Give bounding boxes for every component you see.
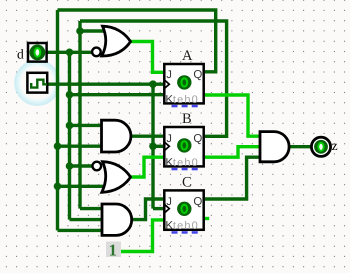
wire A Q to AND1 input2	[58, 144, 103, 147]
wire d to OR2 bubble	[70, 164, 94, 167]
junction BQ/OR1	[76, 27, 84, 35]
wire A Q to OR2 input2	[58, 185, 108, 188]
junction clock/A	[149, 80, 157, 88]
wire A Q vertical bus	[56, 10, 59, 230]
svg-text:A: A	[182, 48, 193, 64]
wire B Q to OR1 input1	[80, 29, 105, 32]
svg-text:teh0: teh0	[173, 94, 199, 106]
and-gate AND3	[260, 132, 289, 162]
wire clock to A clk	[48, 82, 164, 85]
junction d/A-K	[66, 91, 74, 99]
wire AND2 output to C J	[132, 199, 164, 220]
input pin d	[28, 43, 47, 62]
svg-text:teh0: teh0	[173, 157, 199, 169]
flip-flop A	[164, 64, 203, 107]
wire clock to B clk	[153, 145, 163, 148]
svg-text:C: C	[182, 175, 192, 191]
svg-text:J: J	[166, 133, 172, 145]
wire d output	[48, 51, 96, 54]
svg-text:Q: Q	[193, 69, 202, 81]
svg-text:teh0: teh0	[173, 220, 199, 232]
junction d wire	[66, 49, 74, 57]
junction clock/B	[149, 143, 157, 151]
wire d to AND1 input1	[70, 124, 103, 127]
constant 1	[106, 240, 121, 259]
svg-text:z: z	[332, 138, 338, 153]
junction d/OR2	[66, 162, 74, 170]
wire AND1 output to B J	[131, 134, 164, 137]
svg-text:J: J	[166, 196, 172, 208]
junction d/AND1	[66, 122, 74, 130]
svg-text:Q: Q	[193, 196, 202, 208]
output pin z	[311, 137, 330, 156]
svg-text:d: d	[17, 47, 24, 62]
wire AND3 output to z	[289, 145, 312, 148]
wire A Qbar to AND3 input1	[205, 95, 261, 136]
wire d vertical bus	[68, 52, 71, 219]
wire OR2 output to B K	[130, 157, 163, 177]
wire A Q to AND2 input3	[58, 229, 103, 232]
flip-flop C	[164, 190, 203, 233]
and-gate AND2	[102, 204, 132, 235]
wire constant 1 to C K	[120, 220, 164, 252]
wire B Qbar to AND3 input2	[205, 147, 261, 158]
junction AQ/AND1	[54, 142, 62, 150]
or-gate OR1	[92, 26, 130, 56]
wire B Q vertical bus	[78, 21, 81, 209]
or-gate OR2	[93, 162, 131, 193]
wire d to AND2 input2	[70, 218, 103, 221]
wire clock to C clk	[153, 207, 163, 210]
wire OR1 output to A J	[130, 42, 163, 73]
selection halo around clock	[15, 61, 59, 105]
svg-text:1: 1	[109, 240, 117, 259]
svg-text:Q: Q	[193, 133, 202, 145]
wire B Q feedback	[80, 21, 227, 136]
svg-text:J: J	[166, 69, 172, 81]
wire d to A K input	[70, 93, 164, 96]
wire C Q to AND3 input3	[205, 157, 261, 199]
flip-flop B	[164, 127, 203, 170]
wire clock vertical	[151, 84, 154, 208]
wire A Q feedback	[58, 10, 216, 72]
junction AQ/OR2	[54, 183, 62, 191]
clock pin	[27, 73, 47, 93]
svg-text:B: B	[182, 111, 192, 127]
wire C Qbar stub	[204, 217, 209, 220]
wire B Q to AND2 input1	[80, 207, 103, 210]
and-gate AND1	[102, 120, 131, 152]
